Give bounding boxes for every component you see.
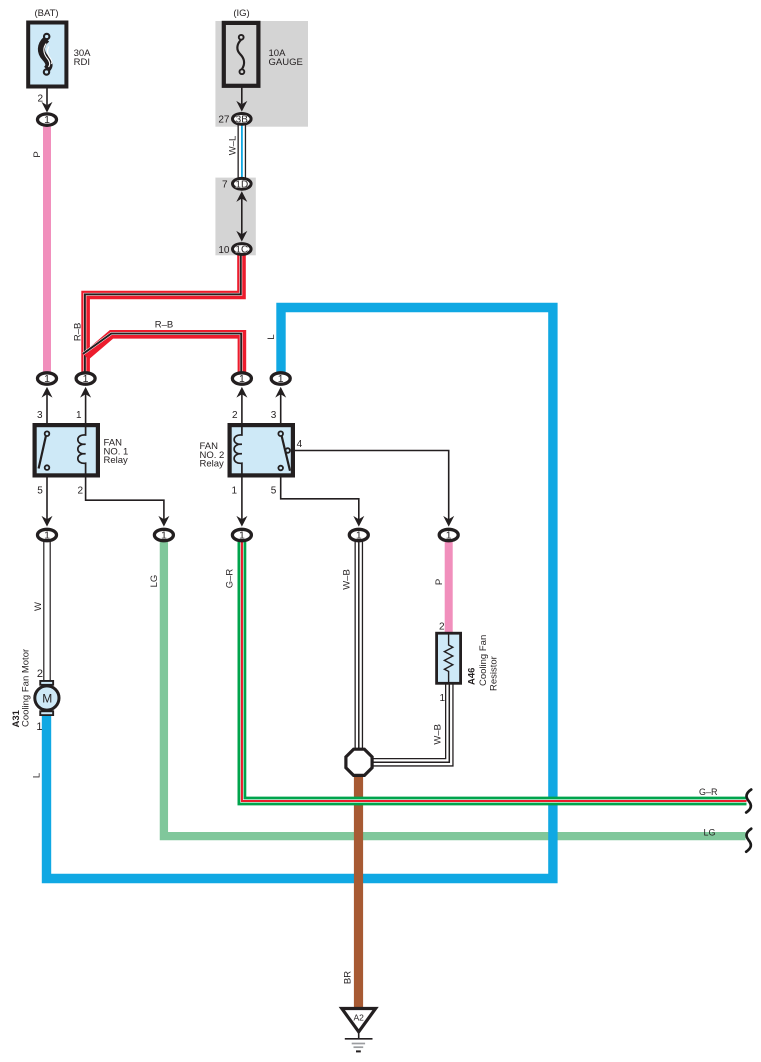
svg-text:Cooling Fan: Cooling Fan [478,635,489,686]
relay FAN NO.2 [230,425,293,476]
svg-text:2: 2 [439,622,445,633]
wire P from BAT fuse [43,127,51,374]
svg-text:W–B: W–B [342,569,353,590]
svg-text:2: 2 [77,486,83,497]
svg-text:27: 27 [218,115,230,126]
svg-text:W: W [33,602,44,611]
component label A31 Cooling Fan Motor [11,649,32,728]
svg-text:1: 1 [76,410,82,421]
value label 10A GAUGE [269,48,303,68]
break symbol G-R [746,790,751,813]
arrow into BAT connector [42,102,53,113]
arrow up into connector above relay2 pin3 [275,387,286,398]
svg-text:R–B: R–B [72,323,83,341]
motor A31 (cooling fan motor) [35,680,59,716]
value label 30A RDI [74,48,92,68]
svg-text:1: 1 [161,530,167,542]
svg-text:BR: BR [343,971,354,984]
svg-text:P: P [32,151,43,157]
svg-text:L: L [31,773,42,778]
svg-text:R–B: R–B [155,320,173,331]
arrow up into connector above relay2 pin2 [236,387,247,398]
svg-text:7: 7 [222,180,228,191]
svg-text:GAUGE: GAUGE [269,57,303,68]
svg-text:Cooling Fan Motor: Cooling Fan Motor [21,649,32,727]
wire: relay2 pin5 route to W-B [281,478,359,521]
relay2 name label FAN NO. 2 Relay [200,441,225,469]
arrow down into connector below relay2 pin4 [443,516,454,527]
svg-text:2: 2 [37,668,43,680]
connector 3B [233,114,252,126]
svg-text:1: 1 [446,530,452,542]
svg-text:1: 1 [278,373,284,385]
svg-text:Relay: Relay [104,455,129,466]
svg-text:1: 1 [36,721,42,733]
arrow up into connector above relay1 pin1 [80,387,91,398]
connector 1C [233,244,252,256]
splice junction (octagon) [346,749,372,775]
svg-text:G–R: G–R [699,787,718,797]
wire: relay1 pin1 up lead [85,394,87,423]
break symbol LG [746,829,751,852]
svg-text:1: 1 [231,486,237,497]
connector 1D [233,178,252,190]
svg-text:Resistor: Resistor [489,656,500,691]
wire W motor [43,540,51,681]
svg-text:3: 3 [37,410,43,421]
wire: 1D to 1C link [241,196,243,236]
svg-text:1: 1 [83,373,89,385]
arrow up into connector above relay1 pin3 [42,387,53,398]
svg-text:L: L [266,334,277,339]
wire: relay1 pin3 up lead [46,394,48,423]
wire: relay2 pin3 up lead [280,394,282,423]
junction block shading (IG upper gray) [215,21,308,127]
svg-text:W–B: W–B [433,724,444,745]
svg-text:2: 2 [232,410,238,421]
arrow down into connector below relay1 pin5 [42,516,53,527]
connectors (ovals) [38,114,459,542]
svg-text:1: 1 [44,373,50,385]
svg-text:5: 5 [271,486,277,497]
arrow down into connector below relay1 pin2 [158,516,169,527]
wire W-B resistor leg [371,683,449,762]
svg-text:3: 3 [271,410,277,421]
relay2 switch contacts [278,431,283,436]
svg-text:1C: 1C [235,245,248,256]
wire: relay2 pin1 down lead [241,478,243,521]
wire: relay2 pin2 up lead [241,394,243,423]
svg-text:P: P [434,579,445,585]
svg-text:3B: 3B [236,115,249,126]
relay FAN NO.1 [35,425,98,476]
relay1 name label FAN NO. 1 Relay [104,438,129,466]
svg-text:1: 1 [239,373,245,385]
svg-text:G–R: G–R [225,569,236,589]
svg-text:LG: LG [149,575,160,588]
svg-text:A46: A46 [467,668,478,685]
relay1 coil [78,425,86,476]
wire W-B vertical [354,540,363,750]
fuse RDI 30A (BAT) [28,23,66,87]
wire W-L [238,124,247,179]
arrow into 3B [236,101,247,112]
svg-text:(BAT): (BAT) [34,8,58,19]
svg-text:W–L: W–L [227,136,238,156]
resistor A46 (cooling fan resistor) [437,632,461,685]
svg-text:1: 1 [44,114,50,126]
wire R-B [83,255,242,373]
svg-text:(IG): (IG) [233,8,249,19]
wire LG (relay1 pin2 net, light green) [164,540,746,836]
arrow down into 1C [236,231,247,242]
junction block shading (1D/1C lower gray) [215,178,255,256]
svg-text:RDI: RDI [74,57,90,68]
arrow down into connector below relay2 pin1 [236,516,247,527]
arrow up into 1D [236,191,247,202]
wire: relay2 pin4 route to resistor P [290,451,449,521]
wire: BAT fuse pin 2 lead [46,87,48,105]
fuse GAUGE 10A (IG) [224,23,259,86]
svg-text:1: 1 [356,530,362,542]
connector row above relays [38,373,57,385]
svg-text:1: 1 [239,530,245,542]
svg-text:10: 10 [218,245,230,256]
ground A2 [342,1009,376,1052]
wire: IG fuse lead to 3B [241,87,243,105]
svg-text:A2: A2 [353,1013,364,1023]
connector row below relays [38,529,57,541]
svg-text:4: 4 [297,439,303,450]
wire P to resistor [445,541,453,632]
svg-text:M: M [42,691,52,705]
relay2 coil [234,425,242,476]
thin black pin wires [47,87,449,521]
wire BR (brown ground lead) [354,774,363,1009]
svg-text:5: 5 [37,486,43,497]
svg-text:1D: 1D [235,180,248,191]
svg-text:1: 1 [439,693,445,704]
svg-text:1: 1 [44,530,50,542]
component label A46 Cooling Fan Resistor [467,635,500,691]
wire: relay1 pin5 down lead [46,478,48,521]
svg-text:LG: LG [704,828,716,838]
svg-text:Relay: Relay [200,459,225,470]
wire G-R (green-red) [242,540,747,801]
wire: relay1 pin2 route to LG [86,478,164,521]
relay1 switch contacts [45,431,50,436]
arrow down into connector below relay2 pin5 [353,516,364,527]
connector 1 below BAT fuse [38,114,57,126]
wire L (blue loop) [47,308,553,879]
arrows [42,101,455,527]
svg-text:2: 2 [37,94,43,105]
